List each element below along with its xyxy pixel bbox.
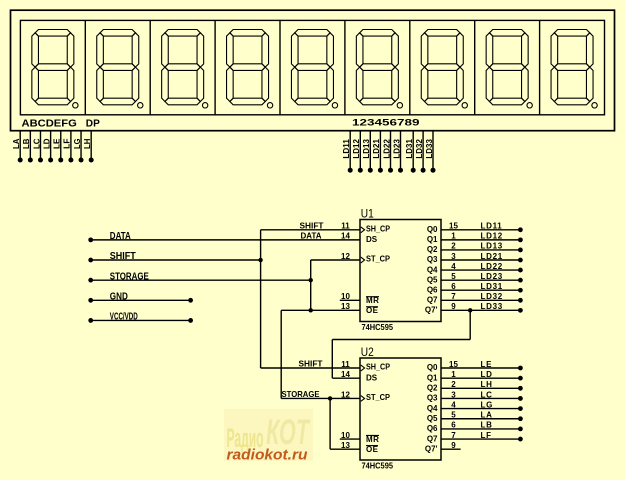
node LD12 end bbox=[518, 237, 523, 242]
node LD22 end bbox=[518, 268, 523, 273]
node LH end bbox=[518, 386, 523, 391]
svg-text:Q2: Q2 bbox=[427, 384, 438, 393]
wire SHIFT to U1 SH_CP bbox=[261, 229, 360, 231]
wire segment pin LE bbox=[60, 131, 62, 160]
svg-text:STORAGE: STORAGE bbox=[110, 271, 149, 282]
svg-text:LA: LA bbox=[481, 411, 493, 420]
svg-text:OE: OE bbox=[366, 306, 379, 315]
svg-text:Q6: Q6 bbox=[427, 424, 438, 433]
svg-text:LG: LG bbox=[73, 139, 82, 150]
svg-text:U2: U2 bbox=[361, 345, 374, 359]
node DATA bbox=[88, 237, 93, 242]
svg-text:LB: LB bbox=[22, 138, 31, 149]
svg-text:ST_CP: ST_CP bbox=[366, 393, 391, 402]
svg-text:Q0: Q0 bbox=[427, 225, 438, 234]
svg-text:Q7: Q7 bbox=[427, 434, 438, 443]
wire SHIFT to U2 SH_CP bbox=[261, 367, 360, 369]
wire STORAGE bbox=[91, 279, 311, 281]
wire U1 pin 9 to LD33 bbox=[441, 309, 520, 311]
svg-text:LD33: LD33 bbox=[425, 138, 434, 158]
IC U1 74HC595 box bbox=[360, 220, 441, 322]
wire SHIFT vertical bbox=[260, 230, 262, 368]
decimal point 3 bbox=[202, 103, 207, 108]
wire DATA bbox=[91, 239, 360, 241]
svg-text:Q7': Q7' bbox=[425, 306, 438, 315]
svg-text:VCC/VDD: VCC/VDD bbox=[110, 312, 138, 323]
wire Q7prime down2 bbox=[331, 340, 333, 379]
7-seg digit 4 bbox=[227, 30, 269, 105]
svg-text:74HC595: 74HC595 bbox=[362, 462, 394, 471]
wire U2 pin 1 to LD bbox=[441, 377, 520, 379]
wire U2 MR stub bbox=[340, 438, 360, 440]
wire digit pin LD22 bbox=[390, 131, 392, 171]
U1 pin SH_CP bbox=[361, 227, 365, 233]
svg-text:LB: LB bbox=[481, 421, 493, 430]
svg-text:LD13: LD13 bbox=[481, 242, 503, 251]
svg-text:9: 9 bbox=[451, 441, 456, 450]
wire SHIFT bbox=[91, 259, 261, 261]
node LD31 end bbox=[518, 288, 523, 293]
svg-text:LE: LE bbox=[53, 139, 62, 150]
svg-text:Q6: Q6 bbox=[427, 285, 438, 294]
svg-text:LD22: LD22 bbox=[481, 262, 503, 271]
wire U1 pin 7 to LD32 bbox=[441, 299, 520, 301]
U2 pin SH_CP bbox=[361, 365, 365, 371]
svg-text:Q4: Q4 bbox=[427, 265, 438, 274]
svg-text:LD23: LD23 bbox=[392, 138, 401, 158]
wire segment pin LG bbox=[80, 131, 82, 160]
svg-text:LD31: LD31 bbox=[405, 138, 414, 158]
node LD23 end bbox=[518, 278, 523, 283]
node LD33 end bbox=[518, 308, 523, 313]
svg-text:Q4: Q4 bbox=[427, 404, 438, 413]
wire STORAGE drop to U2 bbox=[280, 310, 282, 398]
wire VCC/VDD bbox=[91, 319, 191, 321]
node SHIFT bbox=[88, 258, 93, 263]
node LH bbox=[89, 158, 94, 163]
wire U2 pin 4 to LG bbox=[441, 408, 520, 410]
svg-text:LF: LF bbox=[481, 431, 492, 440]
svg-text:5: 5 bbox=[451, 272, 456, 281]
wire U1 MR stub bbox=[340, 299, 360, 301]
decimal point 7 bbox=[462, 103, 467, 108]
node LD end bbox=[518, 376, 523, 381]
svg-text:DATA: DATA bbox=[110, 231, 131, 242]
wire segment pin LH bbox=[90, 131, 92, 160]
svg-text:3: 3 bbox=[451, 390, 456, 399]
svg-text:LD12: LD12 bbox=[352, 138, 361, 158]
node LD23 bbox=[398, 168, 403, 173]
svg-text:Q2: Q2 bbox=[427, 245, 438, 254]
svg-text:GND: GND bbox=[110, 291, 128, 302]
svg-text:Q5: Q5 bbox=[427, 275, 438, 284]
7-seg digit 6 bbox=[356, 30, 398, 105]
svg-text:SHIFT: SHIFT bbox=[110, 251, 136, 262]
svg-text:Q1: Q1 bbox=[427, 235, 438, 244]
node LD11 bbox=[348, 168, 353, 173]
node STORAGE bbox=[88, 278, 93, 283]
node LB end bbox=[518, 427, 523, 432]
node LD21 bbox=[378, 168, 383, 173]
svg-text:6: 6 bbox=[451, 421, 456, 430]
digit cells row bbox=[20, 20, 604, 114]
wire U1 pin 4 to LD22 bbox=[441, 269, 520, 271]
svg-text:SHIFT: SHIFT bbox=[299, 359, 324, 369]
svg-text:DP: DP bbox=[86, 118, 100, 129]
junction Q7prime bbox=[468, 308, 472, 312]
wire U1 ST_CP bbox=[311, 259, 360, 261]
svg-text:3: 3 bbox=[451, 252, 456, 261]
wire GND bbox=[91, 299, 191, 301]
wire segment pin LF bbox=[70, 131, 72, 160]
watermark radiokot bbox=[224, 409, 313, 461]
svg-text:MR: MR bbox=[366, 296, 379, 305]
svg-text:LD13: LD13 bbox=[362, 138, 371, 158]
node LD33 bbox=[431, 168, 436, 173]
svg-text:5: 5 bbox=[451, 411, 456, 420]
cell divider 3 bbox=[214, 20, 216, 114]
svg-text:Q5: Q5 bbox=[427, 414, 438, 423]
wire segment pin LD bbox=[50, 131, 52, 160]
wire U1 pin 3 to LD21 bbox=[441, 259, 520, 261]
svg-text:LD21: LD21 bbox=[372, 138, 381, 158]
svg-text:LD31: LD31 bbox=[481, 282, 503, 291]
wire to U2 DS bbox=[332, 377, 360, 379]
svg-text:LA: LA bbox=[12, 138, 21, 149]
node LE end bbox=[518, 366, 523, 371]
svg-text:LE: LE bbox=[481, 360, 493, 369]
wire Q7prime left bbox=[332, 339, 470, 341]
svg-text:LD21: LD21 bbox=[481, 252, 503, 261]
svg-text:6: 6 bbox=[451, 282, 456, 291]
decimal point 8 bbox=[527, 103, 532, 108]
wire digit pin LD21 bbox=[379, 131, 381, 171]
wire U2 pin 9 stub bbox=[441, 448, 461, 450]
svg-text:1: 1 bbox=[451, 232, 456, 241]
junction U2 ST_CP bbox=[328, 396, 332, 400]
svg-text:STORAGE: STORAGE bbox=[282, 389, 320, 399]
svg-text:LC: LC bbox=[32, 138, 41, 149]
decimal point 4 bbox=[267, 103, 272, 108]
node LD21 end bbox=[518, 258, 523, 263]
svg-text:LD32: LD32 bbox=[415, 138, 424, 158]
cell divider 7 bbox=[474, 20, 476, 114]
wire U1 pin 2 to LD13 bbox=[441, 249, 520, 251]
svg-text:LD: LD bbox=[481, 370, 493, 379]
node LD22 bbox=[388, 168, 393, 173]
decimal point 9 bbox=[592, 103, 597, 108]
cell divider 8 bbox=[539, 20, 541, 114]
wire segment pin LB bbox=[29, 131, 31, 160]
cell divider 4 bbox=[279, 20, 281, 114]
wire Q7prime down bbox=[469, 310, 471, 339]
decimal point 5 bbox=[332, 103, 337, 108]
node LB bbox=[28, 158, 33, 163]
node LD32 end bbox=[518, 298, 523, 303]
node LC end bbox=[518, 396, 523, 401]
wire U1 pin 6 to LD31 bbox=[441, 289, 520, 291]
node LD11 end bbox=[518, 227, 523, 232]
decimal point 1 bbox=[73, 103, 78, 108]
node LD13 end bbox=[518, 248, 523, 253]
display module outer box bbox=[11, 10, 615, 131]
svg-text:LD12: LD12 bbox=[481, 232, 503, 241]
svg-text:123456789: 123456789 bbox=[352, 117, 420, 127]
svg-text:2: 2 bbox=[451, 242, 456, 251]
svg-text:Q0: Q0 bbox=[427, 363, 438, 372]
svg-text:DATA: DATA bbox=[301, 230, 322, 240]
wire U2 pin 15 to LE bbox=[441, 367, 520, 369]
wire U2 OE bbox=[330, 448, 360, 450]
cell divider 1 bbox=[84, 20, 86, 114]
wire segment pin LC bbox=[39, 131, 41, 160]
7-seg digit 8 bbox=[486, 30, 528, 105]
svg-text:SHIFT: SHIFT bbox=[300, 220, 325, 230]
node GND left bbox=[88, 298, 93, 303]
svg-text:LC: LC bbox=[481, 390, 493, 399]
node LD bbox=[48, 158, 53, 163]
wire U1 pin 15 to LD11 bbox=[441, 229, 520, 231]
node LG end bbox=[518, 406, 523, 411]
svg-text:DS: DS bbox=[366, 373, 378, 382]
node VCC right bbox=[188, 318, 193, 323]
svg-text:LD22: LD22 bbox=[382, 138, 391, 158]
wire U1 pin 5 to LD23 bbox=[441, 279, 520, 281]
wire digit pin LD13 bbox=[369, 131, 371, 171]
wire U2 pin 6 to LB bbox=[441, 428, 520, 430]
svg-text:Q3: Q3 bbox=[427, 255, 438, 264]
wire digit pin LD23 bbox=[400, 131, 402, 171]
node LF bbox=[68, 158, 73, 163]
svg-text:4: 4 bbox=[451, 400, 456, 409]
wire U2 ST_CP bbox=[281, 397, 360, 399]
node LF end bbox=[518, 437, 523, 442]
7-seg digit 9 bbox=[551, 30, 593, 105]
svg-text:15: 15 bbox=[449, 222, 458, 231]
svg-text:LD11: LD11 bbox=[342, 138, 351, 158]
node GND right bbox=[188, 298, 193, 303]
wire STORAGE vertical U1 bbox=[310, 260, 312, 310]
node LG bbox=[79, 158, 84, 163]
svg-text:ST_CP: ST_CP bbox=[366, 255, 391, 264]
svg-text:ABCDEFG: ABCDEFG bbox=[22, 118, 78, 129]
wire U2 pin 7 to LF bbox=[441, 438, 520, 440]
node LA bbox=[18, 158, 23, 163]
node LE bbox=[58, 158, 63, 163]
cell divider 2 bbox=[149, 20, 151, 114]
wire U2 OE drop bbox=[329, 398, 331, 449]
svg-text:SH_CP: SH_CP bbox=[366, 224, 391, 233]
junction SHIFT bbox=[258, 258, 262, 262]
svg-text:LH: LH bbox=[481, 380, 493, 389]
node LD12 bbox=[358, 168, 363, 173]
svg-text:U1: U1 bbox=[361, 207, 374, 221]
svg-text:Q7': Q7' bbox=[425, 444, 438, 453]
node LD31 bbox=[411, 168, 416, 173]
cell divider 6 bbox=[409, 20, 411, 114]
svg-text:SH_CP: SH_CP bbox=[366, 363, 391, 372]
wire U1 OE bbox=[281, 309, 360, 311]
U1 pin ST_CP bbox=[361, 257, 365, 263]
wire segment pin LA bbox=[19, 131, 21, 160]
svg-text:LH: LH bbox=[83, 138, 92, 149]
wire U2 pin 2 to LH bbox=[441, 387, 520, 389]
svg-text:Q3: Q3 bbox=[427, 394, 438, 403]
wire U1 pin 1 to LD12 bbox=[441, 239, 520, 241]
decimal point 6 bbox=[397, 103, 402, 108]
wire digit pin LD31 bbox=[412, 131, 414, 171]
svg-text:2: 2 bbox=[451, 380, 456, 389]
svg-text:radiokot.ru: radiokot.ru bbox=[227, 447, 308, 464]
svg-text:74HC595: 74HC595 bbox=[362, 323, 394, 332]
svg-text:4: 4 bbox=[451, 262, 456, 271]
7-seg digit 5 bbox=[291, 30, 333, 105]
decimal point 2 bbox=[138, 103, 143, 108]
svg-text:1: 1 bbox=[451, 370, 456, 379]
svg-text:7: 7 bbox=[451, 292, 456, 301]
svg-text:LD33: LD33 bbox=[481, 302, 503, 311]
svg-text:LD: LD bbox=[42, 138, 51, 149]
svg-text:LD23: LD23 bbox=[481, 272, 503, 281]
wire digit pin LD12 bbox=[359, 131, 361, 171]
svg-text:Q7: Q7 bbox=[427, 295, 438, 304]
svg-text:7: 7 bbox=[451, 431, 456, 440]
node LD32 bbox=[421, 168, 426, 173]
node LA end bbox=[518, 416, 523, 421]
svg-text:DS: DS bbox=[366, 235, 378, 244]
wire U2 pin 3 to LC bbox=[441, 397, 520, 399]
svg-text:MR: MR bbox=[366, 435, 379, 444]
wire digit pin LD33 bbox=[432, 131, 434, 171]
node LD13 bbox=[368, 168, 373, 173]
junction STORAGE bbox=[309, 278, 313, 282]
7-seg digit 1 bbox=[32, 30, 74, 105]
IC U2 74HC595 box bbox=[360, 358, 441, 460]
7-seg digit 2 bbox=[97, 30, 139, 105]
7-seg digit 7 bbox=[421, 30, 463, 105]
svg-text:OE: OE bbox=[366, 445, 379, 454]
wire U2 pin 5 to LA bbox=[441, 418, 520, 420]
node VCC left bbox=[88, 318, 93, 323]
svg-text:LG: LG bbox=[481, 400, 494, 409]
svg-text:LF: LF bbox=[63, 138, 72, 149]
7-seg digit 3 bbox=[162, 30, 204, 105]
svg-text:15: 15 bbox=[449, 360, 458, 369]
svg-text:Q1: Q1 bbox=[427, 373, 438, 382]
node LC bbox=[38, 158, 43, 163]
svg-text:LD11: LD11 bbox=[481, 222, 503, 231]
wire digit pin LD11 bbox=[349, 131, 351, 171]
wire digit pin LD32 bbox=[422, 131, 424, 171]
svg-text:9: 9 bbox=[451, 302, 456, 311]
U2 pin ST_CP bbox=[361, 396, 365, 402]
junction U1 OE bbox=[309, 308, 313, 312]
svg-text:LD32: LD32 bbox=[481, 292, 503, 301]
cell divider 5 bbox=[344, 20, 346, 114]
